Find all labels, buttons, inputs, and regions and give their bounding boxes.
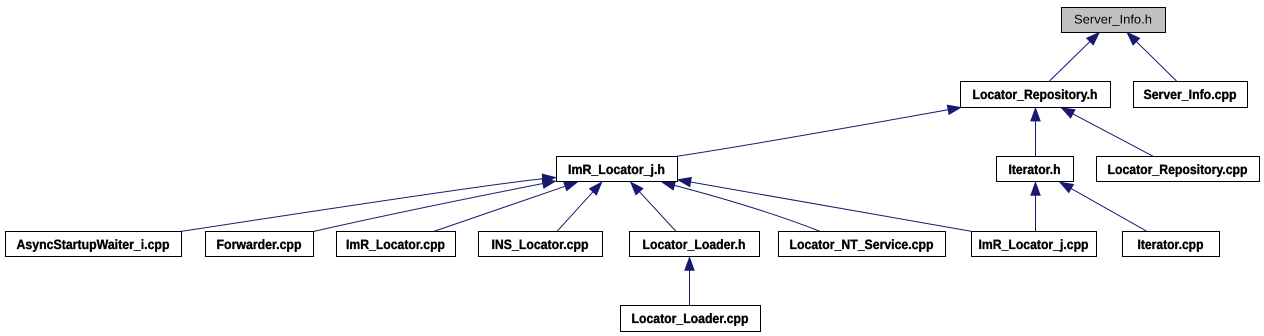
node Server_Info.cpp	[1134, 82, 1248, 108]
node Locator_Repository.cpp	[1097, 157, 1260, 182]
node Forwarder.cpp	[206, 232, 314, 257]
svg-text:Forwarder.cpp: Forwarder.cpp	[217, 237, 302, 252]
wire edge ITC to ITH	[1070, 188, 1147, 232]
arrowhead LRC to LR	[1061, 108, 1075, 119]
arrowhead IMRC to IMR	[563, 182, 577, 191]
node ImR_Locator_j.cpp	[972, 232, 1097, 257]
node Locator_NT_Service.cpp	[779, 232, 946, 257]
arrowhead LLC to LL	[685, 257, 695, 271]
svg-text:Server_Info.cpp: Server_Info.cpp	[1144, 87, 1237, 102]
wire edge ITH to LR	[1035, 120, 1037, 157]
arrowhead IMR to LR	[947, 105, 961, 115]
node Locator_Loader.h	[630, 232, 760, 257]
arrowhead ASW to IMR	[542, 174, 556, 184]
node AsyncStartupWaiter_i.cpp	[6, 232, 182, 257]
svg-text:ImR_Locator_j.cpp: ImR_Locator_j.cpp	[979, 237, 1089, 252]
arrowhead ITH to LR	[1031, 108, 1041, 122]
arrowhead INS to IMR	[589, 182, 602, 195]
wire edge SIC to SI	[1135, 41, 1176, 81]
node Iterator.h	[997, 157, 1074, 182]
wire edge IMRC to IMR	[434, 186, 567, 232]
arrowhead FWD to IMR	[542, 179, 556, 189]
svg-text:ImR_Locator_j.h: ImR_Locator_j.h	[568, 162, 665, 177]
wire edge ASW to IMR	[181, 179, 544, 232]
svg-text:Locator_Loader.cpp: Locator_Loader.cpp	[632, 311, 749, 326]
wire edge IMRJ to ITH	[1035, 194, 1037, 232]
wire edge FWD to IMR	[314, 183, 544, 231]
node Server_Info.h	[1062, 8, 1166, 33]
svg-text:Locator_Repository.cpp: Locator_Repository.cpp	[1108, 162, 1248, 177]
svg-text:Iterator.cpp: Iterator.cpp	[1138, 237, 1204, 252]
wire edge LL to IMR	[639, 191, 677, 232]
svg-text:INS_Locator.cpp: INS_Locator.cpp	[492, 237, 589, 252]
node Iterator.cpp	[1123, 232, 1220, 257]
arrowhead ITC to ITH	[1060, 182, 1074, 193]
wire edge IMR to LR	[677, 110, 950, 157]
svg-text:Iterator.h: Iterator.h	[1009, 162, 1061, 177]
svg-text:Locator_NT_Service.cpp: Locator_NT_Service.cpp	[790, 237, 934, 252]
svg-text:Server_Info.h: Server_Info.h	[1074, 12, 1152, 26]
svg-text:AsyncStartupWaiter_i.cpp: AsyncStartupWaiter_i.cpp	[17, 237, 170, 252]
wire edge INS to IMR	[557, 191, 594, 232]
arrowhead LL to IMR	[630, 182, 643, 195]
arrowhead LR to SI	[1086, 32, 1099, 45]
wire edge IMRJ to IMR	[689, 182, 971, 231]
wire edge LNS to IMR	[673, 185, 820, 231]
svg-text:Locator_Repository.h: Locator_Repository.h	[973, 87, 1098, 102]
wire edge LR to SI	[1050, 41, 1091, 81]
node ImR_Locator.cpp	[337, 232, 456, 257]
arrowhead IMRJ to ITH	[1031, 182, 1041, 196]
arrowhead SIC to SI	[1127, 32, 1140, 45]
node ImR_Locator_j.h	[557, 157, 678, 182]
wire edge LRC to LR	[1072, 113, 1153, 156]
node INS_Locator.cpp	[479, 232, 603, 257]
node Locator_Repository.h	[961, 82, 1111, 108]
svg-text:ImR_Locator.cpp: ImR_Locator.cpp	[346, 237, 445, 252]
svg-text:Locator_Loader.h: Locator_Loader.h	[643, 237, 746, 252]
arrowhead IMRJ to IMR	[677, 177, 691, 187]
wire edge LLC to LL	[689, 269, 691, 305]
node Locator_Loader.cpp	[621, 306, 761, 332]
arrowhead LNS to IMR	[662, 181, 676, 191]
